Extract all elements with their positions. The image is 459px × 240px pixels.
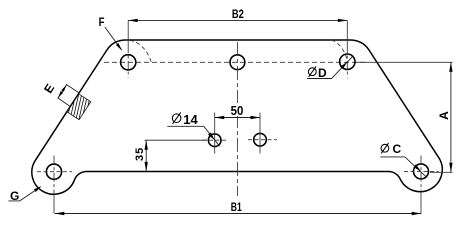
- label C arrow: [414, 164, 422, 171]
- dimension B1 right arrow: [412, 212, 422, 215]
- dimension 35 extension line: [145, 139, 208, 141]
- hole top-right (D): [340, 54, 355, 69]
- svg-text:D: D: [318, 66, 327, 80]
- label 14 arrow: [208, 132, 215, 140]
- svg-text:B1: B1: [231, 202, 242, 215]
- svg-text:C: C: [393, 142, 402, 156]
- dimension 35 line: [145, 140, 147, 171]
- dimension E line: [58, 85, 67, 98]
- section hatch lines: [59, 79, 98, 134]
- dimension B2 left arrow: [128, 19, 138, 22]
- hole mid-left (14): [208, 134, 221, 147]
- label F leader: [105, 27, 122, 50]
- dimension E extension line upper: [66, 84, 79, 93]
- label G leader: [8, 187, 40, 201]
- svg-text:A: A: [437, 111, 451, 120]
- part outline (bracket plate): [32, 40, 442, 194]
- label phi-D symbol: [308, 68, 316, 76]
- extension line B2 left (top-left hole axis): [127, 20, 129, 77]
- phantom bend line left S-curve: [130, 40, 152, 62]
- extension line B2 right (top-right hole axis): [346, 20, 348, 77]
- dimension B2 line: [128, 19, 347, 21]
- dimension 50 line: [215, 117, 260, 119]
- dimension A top arrow: [449, 62, 452, 72]
- label 14 leader: [167, 126, 219, 146]
- mid-right hole vertical centerline: [259, 113, 261, 154]
- bottom-left hole vertical centerline / B1 extension: [53, 156, 55, 214]
- label D leader: [307, 56, 353, 78]
- label phi-C symbol: [381, 144, 389, 152]
- svg-text:50: 50: [231, 103, 244, 118]
- dimension 50 right arrow: [251, 116, 261, 119]
- dimension E lower arrow: [58, 91, 63, 98]
- dimension A line: [450, 62, 452, 172]
- dimension 35 bottom arrow: [145, 162, 148, 172]
- hole bottom-left (G lobe): [46, 164, 61, 179]
- bottom-left hole horizontal centerline: [37, 171, 72, 173]
- dimension E upper arrow: [61, 85, 66, 92]
- dimension B2 right arrow: [338, 19, 348, 22]
- dimension 50 text backing: [229, 103, 245, 116]
- vertical center axis: [236, 42, 238, 196]
- dimension A bottom arrow: [449, 163, 452, 173]
- horizontal centerline through top holes: [104, 61, 368, 63]
- svg-text:F: F: [99, 16, 105, 29]
- hole top-center: [230, 55, 245, 70]
- label phi-14 symbol: [172, 114, 181, 123]
- dimension B1 line: [55, 213, 421, 215]
- label F arrow: [116, 43, 122, 50]
- extension line A top: [356, 61, 453, 63]
- phantom bend line right S-curve: [331, 40, 347, 61]
- svg-text:35: 35: [134, 147, 146, 161]
- extension line A bottom: [430, 171, 453, 173]
- dimension E extension line lower: [58, 98, 71, 107]
- label C leader: [380, 157, 427, 178]
- hole top-left: [121, 55, 136, 70]
- dimension 35 top arrow: [145, 140, 148, 150]
- mid-left hole horizontal centerline: [203, 139, 228, 141]
- mid-right hole horizontal centerline: [248, 139, 277, 141]
- svg-text:14: 14: [183, 112, 198, 127]
- label D arrow: [340, 62, 347, 69]
- bottom-right hole vertical centerline / B1 extension: [420, 156, 422, 214]
- hole bottom-right (C): [414, 164, 429, 179]
- svg-text:B2: B2: [232, 8, 244, 21]
- dimension B1 left arrow: [55, 212, 65, 215]
- hole mid-right: [254, 133, 267, 146]
- label G arrow: [34, 186, 42, 192]
- bottom-right hole horizontal centerline: [404, 170, 439, 172]
- dimension 50 left arrow: [215, 116, 225, 119]
- mid-left hole vertical centerline: [214, 113, 216, 154]
- section patch boundary: [67, 94, 91, 120]
